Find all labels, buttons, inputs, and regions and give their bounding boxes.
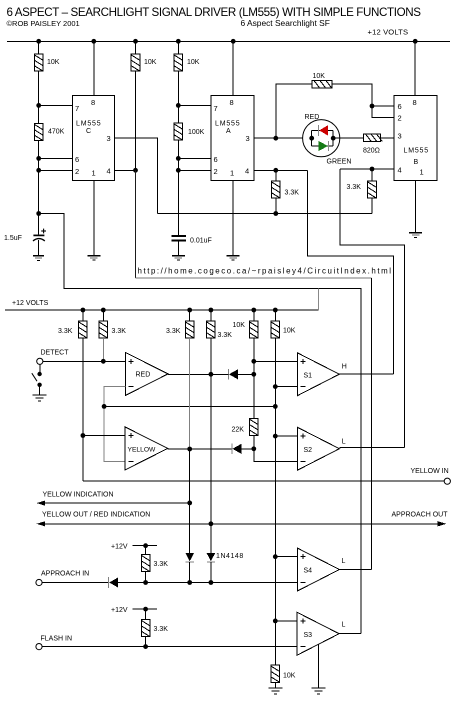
- arrow right (approach out): [438, 521, 447, 526]
- node dot bracket/H1: [102, 404, 107, 409]
- resistor R16 22K: [250, 418, 259, 435]
- node dot +12V stub (flash): [143, 607, 148, 612]
- svg-text:L: L: [342, 622, 346, 629]
- op-amp/timer U-C LM555 box: [73, 95, 115, 180]
- wire: rail2 to R9: [210, 310, 212, 321]
- wire: node to pin 2 of U-A: [178, 169, 211, 171]
- svg-text:+12 VOLTS: +12 VOLTS: [12, 300, 49, 307]
- node dot pins 2-6 B: [370, 104, 375, 109]
- wire: R1 to node pin7 C: [38, 71, 40, 105]
- svg-text:LM555: LM555: [404, 148, 429, 155]
- wire: YELLOW output to R8 node: [168, 448, 190, 450]
- node dot pin6 A: [176, 156, 181, 161]
- wire: S1- node down to H1/S2+: [274, 387, 276, 437]
- wire: node to LED left dot: [276, 137, 312, 139]
- svg-text:S2: S2: [304, 447, 313, 454]
- node dot rail/pin8 C: [91, 39, 96, 44]
- wire: S1- node to S1: [275, 386, 297, 388]
- svg-text:H: H: [342, 364, 347, 371]
- svg-text:APPROACH IN: APPROACH IN: [41, 571, 89, 578]
- minus sign (S4): [301, 582, 306, 584]
- diode D1 (red line, points left): [211, 369, 254, 380]
- wire: R6 bottom to YELLOW+ node: [82, 338, 84, 435]
- wire: stub down to R18: [145, 609, 147, 619]
- wire: YELLOW+ node down to YELLOW IN line: [82, 436, 84, 482]
- wire: RED minus bracket to YELLOW minus: [104, 387, 125, 462]
- svg-text:100K: 100K: [188, 129, 205, 136]
- resistor R5 100K: [174, 123, 183, 140]
- svg-text:7: 7: [214, 104, 218, 113]
- wire: R18 bottom to flash line: [145, 637, 147, 647]
- wire: pin 4 U-C to node: [115, 169, 136, 171]
- svg-text:©ROB PAISLEY 2001: ©ROB PAISLEY 2001: [7, 19, 80, 28]
- svg-text:3.3K: 3.3K: [347, 184, 362, 191]
- svg-text:6: 6: [214, 155, 218, 164]
- svg-text:10K: 10K: [283, 673, 296, 680]
- node dot 1.5uF: [36, 211, 41, 216]
- node dot D2/R16/S2-: [251, 446, 256, 451]
- svg-text:10K: 10K: [283, 328, 296, 335]
- wire: R2 down to pin4 C node: [135, 71, 137, 170]
- svg-text:2: 2: [75, 167, 79, 176]
- wire: S1+ node down to D1 node: [253, 361, 255, 374]
- wire: R7 bottom to detect line: [102, 338, 104, 361]
- wire: C2 to ground: [177, 242, 179, 255]
- wire: pin 3 U-A to LED node: [254, 137, 276, 139]
- minus sign (YELLOW): [128, 460, 133, 462]
- wire: S4+ node to S4: [275, 556, 297, 558]
- node dot rail2/R11: [273, 308, 278, 313]
- ground (R19): [268, 688, 282, 694]
- wire: rail2 to R8: [189, 310, 191, 321]
- diode D3 1N4148 (points down): [185, 553, 194, 583]
- node dot flash/R18: [143, 644, 148, 649]
- svg-text:3.3K: 3.3K: [166, 328, 181, 335]
- wire: S1 output to W3: [339, 373, 393, 375]
- svg-text:10K: 10K: [187, 59, 200, 66]
- node dot S3+ on R11 column: [273, 619, 278, 624]
- diode D2 (yellow line, points left): [232, 443, 254, 454]
- capacitor C1 1.5uF polarized: [33, 229, 46, 241]
- svg-text:22K: 22K: [232, 427, 245, 434]
- wire: R11 bottom to S1- node: [274, 338, 276, 386]
- svg-text:6 Aspect Searchlight SF: 6 Aspect Searchlight SF: [241, 18, 330, 28]
- svg-text:10K: 10K: [144, 59, 157, 66]
- wire: pin 4 U-A right: [254, 169, 307, 171]
- svg-text:RED: RED: [136, 372, 151, 379]
- resistor R2 10K: [131, 54, 140, 71]
- ground (detect switch): [33, 395, 47, 401]
- wire: R9 column down to 1N4148 D4: [210, 524, 212, 553]
- node dot rail2/R6: [81, 308, 86, 313]
- wire: approach in to diode D5: [42, 582, 108, 584]
- wire: pin 1 U-A to ground: [232, 181, 234, 255]
- svg-text:820Ω: 820Ω: [363, 148, 380, 155]
- terminal DETECT circle: [37, 358, 43, 364]
- svg-text:7: 7: [75, 104, 79, 113]
- wire: rail to R1: [38, 41, 40, 54]
- plus sign (S1): [301, 359, 306, 364]
- wire: DETECT to RED + input: [43, 360, 126, 362]
- wire: R19 bottom to ground: [274, 682, 276, 687]
- minus sign (RED): [129, 386, 134, 388]
- op-amp/timer U-A LM555 box: [211, 95, 254, 180]
- svg-text:3: 3: [107, 134, 111, 143]
- wire W4: pin4 B route to S2 output: [340, 169, 404, 448]
- svg-text:http://home.cogeco.ca/~rpaisle: http://home.cogeco.ca/~rpaisley4/Circuit…: [138, 267, 392, 276]
- op-amp S3 triangle: [297, 612, 339, 655]
- wire: R3 down to pin7 A node: [177, 71, 179, 105]
- wire: node to YELLOW + input: [83, 435, 125, 437]
- svg-text:8: 8: [413, 98, 417, 107]
- node dot RED out / R9: [209, 372, 214, 377]
- resistor R18 3.3K: [141, 620, 150, 637]
- svg-text:10K: 10K: [313, 73, 326, 80]
- wire: YELLOW out node down to yellow indication line: [189, 449, 191, 503]
- node dot approach/D3: [187, 580, 192, 585]
- wire: YELLOW IN line: [83, 480, 444, 482]
- resistor R19 10K: [271, 665, 280, 682]
- ground (pin 1 U-B): [409, 233, 422, 238]
- node dot approach/R17: [143, 580, 148, 585]
- node dot R14/pin3C row: [273, 211, 278, 216]
- wire: node down to 0.01uF: [177, 170, 179, 235]
- minus sign (S3): [300, 646, 305, 648]
- svg-text:3.3K: 3.3K: [154, 561, 169, 568]
- arrow left + wire (yellow indication): [37, 501, 190, 506]
- ground (pin 1 U-A): [227, 256, 240, 261]
- node dot S1-: [273, 384, 278, 389]
- plus sign (YELLOW): [128, 433, 133, 438]
- wire: R15 top lead: [371, 169, 373, 181]
- wire: node to pin 7 of U-A: [178, 104, 211, 106]
- svg-text:S1: S1: [304, 373, 313, 380]
- resistor R9 3.3K: [207, 321, 216, 338]
- node dot +12V stub (approach): [143, 543, 148, 548]
- svg-text:A: A: [226, 128, 231, 135]
- wire: pin 4 U-B left: [340, 168, 394, 170]
- svg-text:470K: 470K: [48, 129, 65, 136]
- node dot rail/R2: [133, 39, 138, 44]
- resistor R10 10K: [250, 321, 259, 338]
- svg-text:APPROACH OUT: APPROACH OUT: [392, 512, 449, 519]
- resistor R11 10K: [271, 321, 280, 338]
- diode D4 1N4148 (points down): [207, 553, 216, 583]
- wire: rail2 to R6: [82, 310, 84, 321]
- wire: 10K feedback left lead: [276, 84, 312, 138]
- resistor R12 10K (feedback): [312, 81, 332, 88]
- wire: R12 right lead to pins 2-6 B node: [332, 84, 372, 106]
- switch to ground (detect): [32, 364, 42, 394]
- wire: node to pin 6 of U-B: [372, 105, 394, 107]
- wire: S4 output to W1: [339, 568, 371, 570]
- wire: node down to 100K: [177, 105, 179, 123]
- node dot LED left: [309, 136, 314, 141]
- plus sign (S2): [301, 434, 306, 439]
- resistor R14 3.3K: [272, 181, 281, 198]
- svg-text:1: 1: [420, 168, 424, 177]
- arrow left + wire (yellow out / red indication -> approach out): [37, 521, 441, 526]
- svg-text:YELLOW INDICATION: YELLOW INDICATION: [43, 492, 114, 499]
- wire H1: bracket to S-column: [104, 405, 275, 407]
- wire: rail2 to R10: [253, 310, 255, 321]
- wire: S3 output to W2: [339, 633, 361, 635]
- svg-text:6 ASPECT – SEARCHLIGHT SIGNAL: 6 ASPECT – SEARCHLIGHT SIGNAL DRIVER (LM…: [7, 6, 422, 19]
- wire: pin 3 U-C right and down to row: [115, 138, 158, 213]
- wire W3: pin4 A route to S1 output: [307, 170, 393, 374]
- node dot rail/R3: [176, 39, 181, 44]
- resistor R7 3.3K: [99, 321, 108, 338]
- wire: node down to 470K: [38, 105, 40, 123]
- svg-text:DETECT: DETECT: [41, 350, 70, 357]
- node dot pin2 A: [176, 168, 181, 173]
- node dot pin7 C: [36, 103, 41, 108]
- node dot S1+: [251, 359, 256, 364]
- wire: node to pin 6 of U-C: [39, 157, 73, 159]
- wire: S3+ node to S3: [275, 620, 297, 622]
- svg-text:YELLOW IN: YELLOW IN: [411, 468, 449, 475]
- wire: node down and to S2 - input: [254, 449, 298, 462]
- wire: node to pin 6 of U-A: [178, 157, 211, 159]
- wire: YELLOW out node to diode D2: [190, 448, 232, 450]
- resistor R3 10K: [174, 54, 183, 71]
- wire: R16 bottom to D2 node: [253, 436, 255, 449]
- wire: +12V stub (flash): [133, 608, 157, 610]
- wire: C1 to ground: [38, 240, 40, 255]
- node dot rail/pin8 B: [413, 39, 418, 44]
- ground (pin 1 U-C): [87, 256, 100, 261]
- op-amp S1 triangle: [297, 353, 339, 396]
- capacitor C2 0.01uF: [172, 236, 187, 240]
- wire: R8 column down to 1N4148 D3: [189, 503, 191, 553]
- wire: rail2 to R7: [102, 310, 104, 321]
- plus sign (S4): [301, 554, 306, 559]
- resistor R6 3.3K: [79, 321, 88, 338]
- node dot approach/D4: [209, 580, 214, 585]
- LED bicolor circle: [303, 120, 340, 157]
- minus sign (S2): [301, 460, 306, 462]
- wire: R11 column down to R19: [274, 621, 276, 665]
- svg-text:S4: S4: [304, 568, 313, 575]
- svg-text:0.01uF: 0.01uF: [190, 238, 212, 245]
- svg-text:LM555: LM555: [215, 121, 240, 128]
- wire: +12V second rail: [5, 309, 319, 311]
- wire: down to pin2 A node: [177, 158, 179, 170]
- svg-text:1.5uF: 1.5uF: [4, 235, 22, 242]
- svg-text:RED: RED: [305, 114, 320, 121]
- svg-text:4: 4: [245, 167, 249, 176]
- svg-text:FLASH IN: FLASH IN: [41, 636, 73, 643]
- node dot pin6 C: [36, 156, 41, 161]
- svg-text:C: C: [86, 128, 91, 135]
- resistor R4 470K: [34, 124, 43, 141]
- wire: S2+ node to S2: [275, 435, 297, 437]
- wire: LED right dot to 820 ohm: [333, 137, 364, 139]
- wire: D1 node down to 22K: [253, 374, 255, 418]
- node dot YELLOW out / R8: [187, 447, 192, 452]
- wire: R14 bottom to pin3C row: [275, 198, 277, 213]
- wire: rail to R2: [135, 41, 137, 54]
- svg-text:8: 8: [91, 98, 95, 107]
- wire: rail2 to R11: [274, 310, 276, 321]
- diode LED red (points left): [319, 125, 328, 136]
- wire: RED output to diode node: [168, 373, 211, 375]
- wire: pin3C row across: [158, 213, 373, 215]
- svg-text:1: 1: [92, 169, 96, 178]
- node dot H1 end on R11 column: [273, 404, 278, 409]
- wire: 100K to pin6 A node: [177, 140, 179, 158]
- svg-text:4: 4: [398, 166, 402, 175]
- wire: rail to R3: [177, 41, 179, 54]
- ground (C2): [172, 256, 185, 261]
- op-amp S4 triangle: [297, 548, 339, 591]
- svg-text:1N4148: 1N4148: [216, 553, 244, 560]
- svg-text:2: 2: [214, 167, 218, 176]
- resistor R15 3.3K: [368, 181, 377, 198]
- wire: R13 to pin 3 U-B: [381, 137, 394, 139]
- svg-text:YELLOW OUT / RED INDICATION: YELLOW OUT / RED INDICATION: [42, 512, 150, 519]
- node dot S2+ on R11 column: [273, 434, 278, 439]
- resistor R8 3.3K: [185, 321, 194, 338]
- wire: pin 1 U-C to ground: [93, 181, 95, 255]
- node dot pin3 A / 10K feedback: [273, 136, 278, 141]
- wire: R8 bottom down to YELLOW output: [189, 338, 191, 449]
- terminal YELLOW IN circle: [444, 478, 450, 484]
- svg-text:+12 VOLTS: +12 VOLTS: [368, 28, 409, 37]
- node dot rail2/R8: [187, 308, 192, 313]
- wire: stub down to R17: [145, 546, 147, 555]
- svg-text:6: 6: [398, 102, 402, 111]
- resistor R1 10K: [34, 54, 43, 71]
- node dot D1/R10 column: [251, 372, 256, 377]
- svg-text:2: 2: [398, 114, 402, 123]
- svg-text:3.3K: 3.3K: [112, 328, 127, 335]
- wire: flash in to S3 - input: [42, 646, 297, 648]
- wire: +12V stub (approach): [133, 545, 157, 547]
- LED inner frame: [312, 130, 334, 146]
- wire: 1.5uF node to cap: [38, 214, 40, 235]
- wire W1: pin4C node down (to S4 output route): [135, 170, 137, 278]
- wire: R17 bottom to approach line: [145, 572, 147, 583]
- ground (S3): [312, 688, 326, 694]
- wire: rail2 end stub up to W2 line: [318, 288, 320, 310]
- wire: +12V top rail: [7, 40, 450, 42]
- wire: R11 column down to S3+: [274, 557, 276, 621]
- op-amp RED comparator triangle: [126, 353, 169, 396]
- svg-text:6: 6: [75, 155, 79, 164]
- wire: pin 8 U-B to rail: [414, 41, 416, 95]
- wire: S1+ node to S1: [254, 360, 297, 362]
- wire: pin 8 U-A to rail: [232, 41, 234, 95]
- svg-text:3: 3: [246, 134, 250, 143]
- svg-text:YELLOW: YELLOW: [128, 447, 157, 454]
- svg-text:LM555: LM555: [76, 121, 101, 128]
- svg-text:+12V: +12V: [111, 607, 128, 614]
- wire: RED out node down (to yellow out/red ind line): [210, 374, 212, 524]
- node dot pin4 B / R15: [370, 167, 375, 172]
- svg-text:4: 4: [107, 167, 111, 176]
- wire: S3 ground stem: [318, 645, 320, 688]
- node dot pin4 C: [133, 168, 138, 173]
- node dot rail2/R10: [251, 308, 256, 313]
- svg-text:1: 1: [230, 169, 234, 178]
- wire: R10 bottom to S1+ node: [253, 338, 255, 361]
- wire: pin6 node down to pin2 node: [38, 158, 40, 170]
- op-amp S2 triangle: [297, 427, 339, 470]
- node dot pin4 A / R14: [273, 168, 278, 173]
- wire: R9 bottom to RED output: [210, 338, 212, 374]
- node dot detect/R7: [101, 359, 106, 364]
- terminal FLASH IN circle: [36, 644, 42, 650]
- op-amp YELLOW comparator triangle: [125, 427, 168, 470]
- wire: pin 8 U-C to rail: [93, 41, 95, 95]
- wire: pin2 node down to 1.5uF node: [38, 170, 40, 213]
- terminal APPROACH IN circle: [36, 579, 42, 585]
- node dot YELLOW+: [81, 433, 86, 438]
- svg-text:B: B: [414, 159, 419, 166]
- node dot S4+ on R11 column: [273, 554, 278, 559]
- diode LED green (points right): [318, 141, 328, 151]
- svg-text:3.3K: 3.3K: [154, 626, 169, 633]
- resistor R17 3.3K: [141, 555, 150, 572]
- wire W1 vertical right side: [371, 278, 373, 569]
- wire: R14 top lead: [275, 170, 277, 181]
- node dot rail/pin8 A: [231, 39, 236, 44]
- diode D5 (points left): [109, 577, 146, 588]
- svg-text:3.3K: 3.3K: [58, 328, 73, 335]
- node dot rail/R1: [36, 39, 41, 44]
- wire: S2 output to W4: [339, 447, 404, 449]
- node dot rail2/R9: [209, 308, 214, 313]
- svg-text:3: 3: [398, 132, 402, 141]
- svg-text:GREEN: GREEN: [327, 159, 352, 166]
- node dot pin2 C: [36, 168, 41, 173]
- svg-text:L: L: [342, 439, 346, 446]
- node dot rail2/R7: [101, 308, 106, 313]
- node dot pin7 A: [176, 103, 181, 108]
- wire W2: 1.5uF node route to S3 output: [39, 214, 361, 634]
- svg-text:3.3K: 3.3K: [218, 332, 233, 339]
- wire: node to pin 7 of U-C: [39, 104, 73, 106]
- wire: R11 column down through S2+ to S4+: [274, 436, 276, 557]
- wire: node down and to pin 2 of U-B: [372, 106, 394, 118]
- ground (C1): [33, 256, 44, 261]
- wire: approach line to S4 - input: [146, 582, 298, 584]
- minus sign (S1): [301, 386, 306, 388]
- node dot yellow out line / R9 column: [209, 521, 214, 526]
- svg-text:10K: 10K: [47, 59, 60, 66]
- resistor R13 820 ohm: [364, 134, 383, 141]
- wire: 470K to pin6 node: [38, 141, 40, 159]
- svg-text:10K: 10K: [233, 322, 246, 329]
- plus sign (S3): [300, 618, 305, 623]
- node dot LED right: [331, 136, 336, 141]
- wire: R15 bottom to pin3C row: [371, 198, 373, 213]
- svg-text:3.3K: 3.3K: [285, 190, 300, 197]
- svg-text:+12V: +12V: [111, 544, 128, 551]
- svg-text:L: L: [342, 558, 346, 565]
- svg-text:8: 8: [230, 98, 234, 107]
- op-amp/timer U-B LM555 box: [394, 95, 437, 180]
- plus sign (RED): [129, 359, 134, 364]
- node dot yellow indication / R8 column: [187, 501, 192, 506]
- wire: node to pin 2 of U-C: [39, 169, 73, 171]
- wire: pin 1 U-B to ground: [415, 181, 417, 233]
- svg-text:S3: S3: [304, 632, 313, 639]
